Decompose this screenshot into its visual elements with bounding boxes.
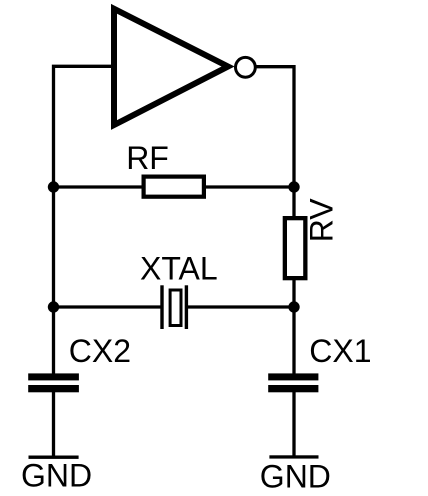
inverter output bubble bbox=[236, 57, 256, 77]
svg-text:GND: GND bbox=[21, 458, 92, 494]
capacitor CX2 bottom plate bbox=[28, 385, 79, 392]
ground bar left bbox=[29, 456, 79, 459]
ground bar right bbox=[269, 455, 318, 458]
node junction XTAL-left bbox=[48, 301, 59, 312]
svg-text:CX1: CX1 bbox=[309, 333, 371, 369]
resistor RF bbox=[144, 177, 204, 197]
crystal XTAL right plate bbox=[185, 285, 188, 329]
op-amp U1 inverter triangle bbox=[114, 9, 228, 125]
node junction RF-left bbox=[48, 181, 59, 192]
svg-text:RV: RV bbox=[303, 198, 339, 243]
svg-text:CX2: CX2 bbox=[69, 333, 131, 369]
resistor RV bbox=[285, 218, 306, 278]
wire: RF row left segment bbox=[54, 185, 145, 188]
wire: left vertical rail bottom segment (cap to ground) bbox=[52, 390, 55, 457]
crystal XTAL left plate bbox=[160, 285, 163, 329]
capacitor CX2 top plate bbox=[28, 373, 79, 380]
wire: right rail RV to cap CX1 bbox=[292, 278, 295, 376]
wire: right rail cap CX1 to ground bbox=[292, 390, 295, 457]
capacitor CX1 bottom plate bbox=[268, 385, 318, 392]
wire input: left vertical rail top segment bbox=[54, 66, 112, 375]
svg-text:XTAL: XTAL bbox=[140, 251, 218, 287]
wire: XTAL row left segment bbox=[54, 305, 162, 308]
wire output: bubble to right rail, down to RV bbox=[256, 67, 295, 219]
node junction XTAL-right bbox=[288, 301, 299, 312]
node junction RF-right bbox=[288, 181, 299, 192]
wire: XTAL row right segment bbox=[187, 305, 294, 308]
capacitor CX1 top plate bbox=[268, 373, 318, 380]
crystal XTAL body box bbox=[170, 290, 181, 326]
wire: RF row right segment bbox=[204, 185, 294, 188]
svg-text:GND: GND bbox=[260, 458, 331, 494]
svg-text:RF: RF bbox=[126, 140, 169, 176]
